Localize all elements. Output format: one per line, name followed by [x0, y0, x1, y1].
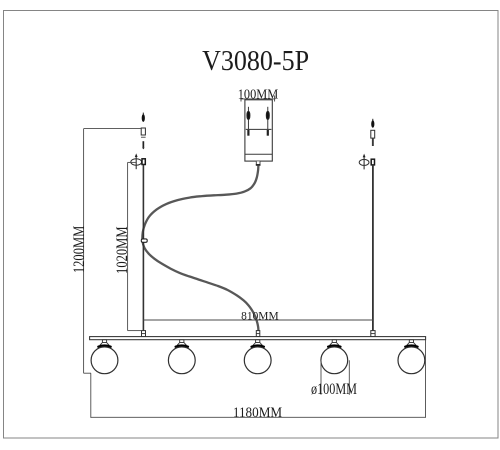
cord grip bead on left cable — [141, 239, 147, 242]
canopy screw left — [247, 107, 250, 136]
globe G1 — [91, 340, 118, 374]
svg-text:1200MM: 1200MM — [71, 225, 88, 273]
svg-text:1180MM: 1180MM — [233, 405, 282, 421]
canopy mounting bracket line — [246, 128, 272, 130]
canopy (ceiling box) — [245, 100, 272, 161]
globe G4 — [321, 340, 348, 374]
left suspension underline — [141, 136, 146, 138]
dimension o100MM extension lines — [321, 360, 349, 395]
globe G5 — [398, 340, 425, 374]
dimension 810MM line — [144, 319, 373, 321]
left suspension socket rect — [141, 128, 145, 135]
left suspension ceiling stud — [142, 113, 145, 122]
dimension 1200MM — [84, 129, 142, 374]
dimension 1180MM — [91, 340, 426, 418]
cord end connector at bar — [256, 331, 260, 337]
svg-text:ø100MM: ø100MM — [311, 381, 357, 398]
cord (S-curved wire from canopy to bar) — [142, 166, 258, 331]
right cable top fitting — [371, 159, 374, 165]
right suspension ceiling stud — [371, 119, 374, 128]
dimension 100MM line — [240, 96, 275, 102]
right cable — [372, 165, 374, 331]
left suspension screw shaft — [142, 141, 145, 149]
globe G2 — [168, 340, 195, 374]
right cable adjuster (gripper) — [359, 154, 369, 170]
canopy cord nub — [256, 161, 261, 165]
svg-text:V3080-5P: V3080-5P — [202, 45, 309, 77]
left cable top fitting — [142, 159, 145, 165]
right suspension socket rect — [371, 130, 375, 138]
dimension 1020MM — [128, 162, 143, 330]
left cable adjuster (gripper) — [131, 153, 142, 169]
right suspension screw shaft — [372, 138, 374, 146]
left cable bottom connector — [142, 331, 146, 337]
canopy screw right — [266, 107, 269, 136]
svg-text:1020MM: 1020MM — [114, 226, 131, 274]
left cable — [142, 165, 144, 331]
svg-text:810MM: 810MM — [241, 310, 279, 322]
globe G3 — [244, 340, 271, 374]
hanging bar — [90, 337, 426, 340]
right cable bottom connector — [371, 331, 375, 337]
